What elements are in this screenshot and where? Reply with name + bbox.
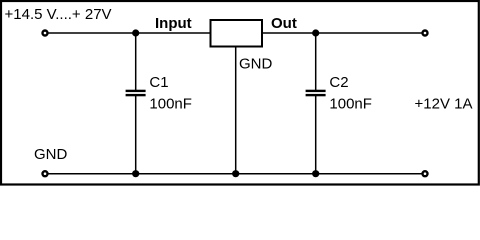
- svg-text:+12V 1A: +12V 1A: [415, 95, 473, 112]
- junction: ground rail / C2: [312, 170, 319, 177]
- wire: C2 bottom branch: [315, 96, 317, 174]
- wire: C1 top branch: [135, 33, 137, 90]
- junction: ground rail / regulator GND: [232, 170, 239, 177]
- voltage regulator U1 (body): [211, 20, 263, 47]
- wire: C2 top branch: [315, 33, 317, 90]
- svg-text:C1: C1: [149, 74, 168, 91]
- junction: ground rail / C1: [132, 170, 139, 177]
- terminal: output +: [423, 31, 428, 36]
- svg-text:GND: GND: [239, 56, 273, 73]
- terminal: input GND: [43, 171, 48, 176]
- junction: input rail / C1: [132, 29, 139, 36]
- terminal: input +: [43, 31, 48, 36]
- terminal: output GND: [423, 171, 428, 176]
- svg-text:100nF: 100nF: [149, 96, 192, 113]
- capacitor C1 plates: [126, 90, 146, 97]
- svg-text:Input: Input: [155, 15, 192, 32]
- svg-text:Out: Out: [271, 15, 297, 32]
- junction: output rail / C2: [312, 29, 319, 36]
- svg-text:100nF: 100nF: [329, 96, 372, 113]
- svg-text:C2: C2: [329, 74, 348, 91]
- wire: input rail (terminal J1 to regulator input): [45, 32, 211, 34]
- svg-text:GND: GND: [34, 146, 68, 163]
- wire: output rail (regulator out to terminal J2): [261, 32, 425, 34]
- capacitor C2 plates: [306, 90, 326, 97]
- wire: C1 bottom branch: [135, 96, 137, 174]
- wire: ground rail: [45, 173, 425, 175]
- wire: regulator GND pin to ground rail: [235, 46, 237, 174]
- svg-text:+14.5 V....+ 27V: +14.5 V....+ 27V: [5, 6, 112, 23]
